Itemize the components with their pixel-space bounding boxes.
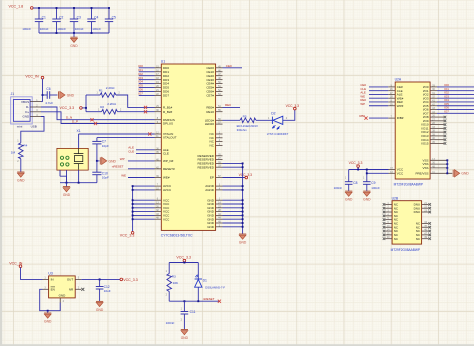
resistor R5 330ohm xyxy=(240,118,256,123)
junction xyxy=(446,163,448,165)
svg-text:GND: GND xyxy=(239,241,247,245)
svg-text:C6: C6 xyxy=(46,87,50,91)
junction xyxy=(99,278,101,280)
pin NC left row 5 of U2B xyxy=(385,219,392,221)
svg-text:C11: C11 xyxy=(190,310,196,314)
svg-text:C9: C9 xyxy=(371,181,375,185)
svg-text:GND: GND xyxy=(345,198,353,202)
pin I/O3 with net label IO3 xyxy=(430,97,437,99)
wire R1 to U1 R_B1# xyxy=(116,95,155,107)
pin NC right row 9 of U2B xyxy=(422,234,429,236)
pin CLE with net label CLE xyxy=(155,153,162,155)
pin RE0# with net label RE0 xyxy=(216,106,223,108)
wire VSS bus right of U2A xyxy=(446,160,448,173)
wire VCC rail left of U2A xyxy=(349,169,389,171)
svg-text:100nF: 100nF xyxy=(22,27,31,31)
capacitor C12 10uF xyxy=(99,279,101,286)
svg-text:C1: C1 xyxy=(42,16,46,20)
svg-text:RESERVED: RESERVED xyxy=(197,165,214,169)
pin NC right row 7 of U2B xyxy=(422,226,429,228)
pin DD5 with net label IO5 xyxy=(155,87,162,89)
ground GND below U3 xyxy=(47,311,49,313)
junction xyxy=(446,167,448,169)
pin DMINUS xyxy=(155,119,162,121)
svg-text:X1: X1 xyxy=(77,129,81,133)
svg-text:2.2KΩ: 2.2KΩ xyxy=(106,86,115,90)
svg-text:100nF: 100nF xyxy=(166,321,175,325)
pin NC left row 2 of U2B xyxy=(385,207,392,209)
svg-text:WE: WE xyxy=(121,173,126,177)
no-ERC marker on D_N xyxy=(90,118,93,121)
svg-text:100nF: 100nF xyxy=(334,186,343,190)
svg-text:GND: GND xyxy=(363,198,371,202)
junction xyxy=(183,262,185,264)
svg-text:LED2#: LED2# xyxy=(205,122,215,126)
junction xyxy=(132,218,134,220)
svg-text:D+: D+ xyxy=(25,110,29,114)
diode D1 xyxy=(195,263,226,302)
svg-text:VCC_3.3: VCC_3.3 xyxy=(123,278,138,282)
svg-text:100nF: 100nF xyxy=(371,186,380,190)
pin NC right row 6 of U2B xyxy=(422,222,429,224)
pin DNU right row 1 of U2B xyxy=(422,203,429,205)
svg-text:10uF: 10uF xyxy=(104,289,111,293)
pin NC left row 4 of U2B xyxy=(385,215,392,217)
junction xyxy=(446,159,448,161)
pin I/O12 xyxy=(430,131,444,133)
junction xyxy=(132,211,134,213)
wire crystal ground pins xyxy=(59,170,61,176)
pin DD1 with net label IO1 xyxy=(155,71,162,73)
svg-text:C4: C4 xyxy=(94,16,98,20)
pin DPLUS xyxy=(155,123,162,125)
pins VCC x6 xyxy=(155,199,162,201)
svg-text:AGND: AGND xyxy=(205,188,215,192)
no-ERC marker at nRESET wire end xyxy=(218,300,221,303)
pin DD2 with net label IO2 xyxy=(155,75,162,77)
svg-text:R4: R4 xyxy=(23,143,27,147)
junction xyxy=(132,199,134,201)
junction xyxy=(357,169,359,171)
pin I/O4 with net label IO4 xyxy=(430,101,437,103)
svg-text:R3: R3 xyxy=(172,275,176,279)
svg-text:330ohm: 330ohm xyxy=(237,128,248,132)
svg-text:VCC_3.3: VCC_3.3 xyxy=(176,255,191,259)
junction xyxy=(132,203,134,205)
svg-text:D1: D1 xyxy=(203,278,207,282)
ground GND below crystal xyxy=(66,183,68,187)
svg-text:C2: C2 xyxy=(59,16,63,20)
svg-text:WP_D#: WP_D# xyxy=(163,159,174,163)
ground GND below R4 xyxy=(17,171,24,173)
svg-text:U2B: U2B xyxy=(392,196,399,200)
pin XTALOUT xyxy=(155,137,162,139)
wire CE0 with net label CE0 xyxy=(223,67,243,69)
svg-text:100nF: 100nF xyxy=(75,27,84,31)
svg-text:R1: R1 xyxy=(99,89,103,93)
pin LED1# xyxy=(216,119,223,121)
junction xyxy=(366,169,368,171)
pin I/O14 xyxy=(430,139,444,141)
svg-text:WP#: WP# xyxy=(397,104,404,108)
junction xyxy=(242,189,244,191)
junction xyxy=(108,7,110,9)
pin RESET# with net label nRESET xyxy=(155,168,162,170)
svg-text:RB0: RB0 xyxy=(359,114,365,118)
pin XTALIN xyxy=(155,133,162,135)
svg-text:1M: 1M xyxy=(11,151,16,155)
wire U3 EN to GND xyxy=(40,289,61,310)
junction xyxy=(197,300,199,302)
svg-text:nRESET: nRESET xyxy=(112,165,124,169)
capacitor C10 10pF xyxy=(96,161,98,172)
wire VCC_IN to U3 IN xyxy=(21,268,43,280)
svg-text:GND: GND xyxy=(109,159,117,163)
svg-text:VCC_1.8: VCC_1.8 xyxy=(9,5,24,9)
wire J1 GND to R4 xyxy=(21,117,44,143)
svg-text:CLE: CLE xyxy=(163,152,169,156)
pin CE3# xyxy=(216,79,223,81)
svg-text:CY7C68013-56LTXC: CY7C68013-56LTXC xyxy=(161,234,193,238)
svg-text:XTALOUT: XTALOUT xyxy=(163,136,177,140)
junction xyxy=(56,7,58,9)
wire D_N from J1 D- to U1 DMINUS xyxy=(41,107,155,120)
pin CE2# xyxy=(216,75,223,77)
wire R2 to U1 R_B2# xyxy=(118,111,155,113)
junction xyxy=(42,94,44,96)
svg-text:DPLUS: DPLUS xyxy=(163,122,173,126)
capacitor C9 100nF xyxy=(363,181,371,183)
svg-text:CE0: CE0 xyxy=(226,64,232,68)
svg-text:U2A: U2A xyxy=(395,78,402,82)
pin R_B2# xyxy=(155,111,162,113)
svg-text:WP: WP xyxy=(360,102,365,106)
no-ERC marker on R_B1 wire xyxy=(144,106,147,109)
svg-text:I/O15: I/O15 xyxy=(421,142,429,146)
capacitor C5 100nF xyxy=(108,8,110,19)
resistor R1 2.2K xyxy=(86,94,100,96)
junction xyxy=(132,185,134,187)
svg-text:100nF: 100nF xyxy=(92,27,101,31)
svg-text:100nF: 100nF xyxy=(57,27,66,31)
junction xyxy=(446,172,448,174)
pin CE4# xyxy=(216,83,223,85)
pin CE# with net label CE0 xyxy=(388,86,395,88)
svg-text:VCC: VCC xyxy=(163,217,170,221)
ground GND below U1 xyxy=(239,233,246,235)
pin WE# with net label WE xyxy=(155,177,162,179)
wire U3 OUT to VCC_3.3 xyxy=(81,278,120,280)
svg-text:100nF: 100nF xyxy=(40,27,49,31)
svg-text:VCC_IN: VCC_IN xyxy=(25,74,39,78)
junction xyxy=(91,7,93,9)
pin DD0 with net label IO0 xyxy=(155,67,162,69)
pin CE0# xyxy=(216,67,223,69)
pin RE# with net label RE0 xyxy=(388,101,395,103)
pin NC left row 7 of U2B xyxy=(385,226,392,228)
svg-text:VCC_3.3: VCC_3.3 xyxy=(239,173,253,177)
svg-text:C8: C8 xyxy=(353,181,357,185)
no-ERC marker on RB0 wire xyxy=(364,117,367,120)
svg-text:GND: GND xyxy=(461,172,469,176)
junction xyxy=(91,32,93,34)
wire D_P from J1 D+ to U1 DPLUS xyxy=(41,112,155,124)
pin I/O15 xyxy=(430,142,444,144)
no-ERC marker on D_P xyxy=(94,122,97,125)
power port VCC_3.3 above LED xyxy=(294,107,297,110)
svg-text:MT29F2G08AABWP: MT29F2G08AABWP xyxy=(394,182,423,186)
pin I/O8 xyxy=(430,116,444,118)
svg-text:WP: WP xyxy=(120,157,125,161)
svg-text:J1: J1 xyxy=(11,92,15,96)
junction xyxy=(47,310,49,312)
svg-text:GND: GND xyxy=(70,44,78,48)
wire decoupling bottom rail xyxy=(39,32,109,34)
junction xyxy=(242,203,244,205)
svg-text:D-: D- xyxy=(26,105,29,109)
svg-text:4.7uF: 4.7uF xyxy=(45,101,53,105)
capacitor C8 100nF xyxy=(348,170,350,182)
voltage regulator U3 xyxy=(43,272,82,303)
svg-text:C5: C5 xyxy=(112,16,116,20)
crystal X1 xyxy=(57,129,88,170)
pin WP_D# with net label WP xyxy=(155,160,162,162)
svg-text:GND: GND xyxy=(44,320,52,324)
pin I/O2 with net label IO2 xyxy=(430,93,437,95)
pin ALE with net label ALE xyxy=(388,93,395,95)
svg-text:EN: EN xyxy=(51,288,55,292)
pin NC left row 10 of U2B xyxy=(385,238,392,240)
svg-text:10pF: 10pF xyxy=(102,176,109,180)
svg-text:WE#: WE# xyxy=(163,176,170,180)
ground GND below C8 xyxy=(345,190,352,192)
svg-text:R/B#: R/B# xyxy=(397,116,404,120)
svg-text:nRESET: nRESET xyxy=(203,297,215,301)
svg-text:U3: U3 xyxy=(48,272,52,276)
pin I/O0 with net label IO0 xyxy=(430,86,437,88)
wire R5 to LED D2 xyxy=(256,119,272,121)
pin I/O7 with net label IO7 xyxy=(430,112,437,114)
svg-text:VCC_3.3: VCC_3.3 xyxy=(60,106,75,110)
pin I/O11 xyxy=(430,127,444,129)
pin CE5# xyxy=(216,87,223,89)
svg-text:USB: USB xyxy=(31,125,37,129)
svg-text:VCC: VCC xyxy=(397,171,404,175)
svg-text:D2: D2 xyxy=(271,111,275,115)
pin CE6# xyxy=(216,91,223,93)
pin I/O10 xyxy=(430,124,444,126)
junction xyxy=(132,189,134,191)
wire crystal ground rail xyxy=(60,182,97,184)
svg-text:GND: GND xyxy=(207,225,215,229)
resistor R3 10K xyxy=(168,263,170,274)
no-connect mark on NR pin xyxy=(81,288,84,291)
svg-text:D_P: D_P xyxy=(72,119,78,123)
junction xyxy=(96,160,98,162)
pin NC left row 3 of U2B xyxy=(385,211,392,213)
ground GND right of C6 xyxy=(58,91,60,98)
wire XTALIN xyxy=(79,133,155,135)
pin WE# with net label WE xyxy=(388,97,395,99)
junction xyxy=(242,214,244,216)
pin I/O6 with net label IO6 xyxy=(430,109,437,111)
svg-text:GND: GND xyxy=(23,115,31,119)
ground GND of decoupling bank xyxy=(73,33,75,37)
svg-text:VCC_3.3: VCC_3.3 xyxy=(120,234,135,238)
junction xyxy=(78,182,80,184)
svg-text:RESET#: RESET# xyxy=(163,167,175,171)
junction xyxy=(73,7,75,9)
svg-text:AVCC: AVCC xyxy=(163,188,172,192)
wire LED1# to R5 xyxy=(223,119,241,121)
wire VCC_IN to VBUS xyxy=(42,79,44,102)
junction xyxy=(132,207,134,209)
pins VCC x2 of U2A xyxy=(389,169,396,171)
junction xyxy=(66,182,68,184)
svg-text:RE0: RE0 xyxy=(225,103,231,107)
capacitor C1 100nF xyxy=(38,8,40,19)
svg-text:DNU: DNU xyxy=(414,210,421,214)
junction xyxy=(73,32,75,34)
pin NC left row 1 of U2B xyxy=(385,203,392,205)
svg-text:DS0LAMN5-7-F: DS0LAMN5-7-F xyxy=(205,286,225,290)
junction xyxy=(242,207,244,209)
svg-text:GND: GND xyxy=(96,308,104,312)
svg-text:MT29F2G08AABWP: MT29F2G08AABWP xyxy=(391,248,420,252)
pin LED2# xyxy=(216,123,223,125)
pins VSS x3 xyxy=(430,159,447,161)
svg-text:OUT: OUT xyxy=(67,278,74,282)
junction xyxy=(242,166,244,168)
capacitor C3 100nF xyxy=(73,8,75,19)
junction xyxy=(183,300,185,302)
svg-text:C3: C3 xyxy=(77,16,81,20)
no-ERC marker on R_B2 wire xyxy=(144,110,147,113)
svg-text:GND: GND xyxy=(67,93,75,97)
pin NC left row 9 of U2B xyxy=(385,234,392,236)
pin ALE with net label ALE xyxy=(155,149,162,151)
pin I/O1 with net label IO1 xyxy=(430,90,437,92)
pins AGND x2 xyxy=(216,185,223,187)
junction xyxy=(242,218,244,220)
svg-text:GND: GND xyxy=(181,336,189,340)
pin AVCC x2 xyxy=(155,185,162,187)
junction xyxy=(366,172,368,174)
pin NC left row 6 of U2B xyxy=(385,222,392,224)
svg-text:VSS: VSS xyxy=(422,166,428,170)
svg-text:IN: IN xyxy=(51,278,54,282)
junction xyxy=(242,185,244,187)
wire XTALOUT xyxy=(97,137,155,139)
power port VCC_3.3 at U3 output xyxy=(120,278,123,281)
pin DD4 with net label IO4 xyxy=(155,83,162,85)
svg-text:VCC_3.3: VCC_3.3 xyxy=(349,161,363,165)
svg-text:DD7: DD7 xyxy=(163,94,169,98)
pin DD3 with net label IO3 xyxy=(155,79,162,81)
svg-text:LTST-C190KRKT: LTST-C190KRKT xyxy=(267,132,289,136)
pin PRE/VSS with ground xyxy=(430,172,452,174)
pins GND x8 xyxy=(216,199,223,201)
pin DD6 with net label IO6 xyxy=(155,91,162,93)
svg-text:GND: GND xyxy=(17,179,25,183)
svg-text:GND: GND xyxy=(59,294,67,298)
connector J1 mini-USB xyxy=(11,92,41,128)
wire VCC_3.3 to R1 R2 xyxy=(82,107,86,109)
pins NC x4 xyxy=(216,133,223,135)
ground GND below C9 xyxy=(363,190,370,192)
capacitor C2 100nF xyxy=(56,8,58,19)
ground GND below C12 xyxy=(96,300,103,302)
svg-text:CE7#: CE7# xyxy=(206,94,214,98)
capacitor C7 10pF xyxy=(92,140,101,142)
svg-text:10K: 10K xyxy=(173,281,179,285)
wire R4 to ground xyxy=(20,159,22,172)
svg-text:10pF: 10pF xyxy=(102,144,109,148)
pins RESERVED x4 xyxy=(216,155,223,157)
pin CE1# xyxy=(216,71,223,73)
power port VCC_3.3 below U1 VCC bus xyxy=(131,232,134,235)
svg-text:VCC_3.3: VCC_3.3 xyxy=(286,104,300,108)
resistor R4 1M xyxy=(19,143,24,159)
svg-text:mini: mini xyxy=(17,125,23,129)
pin R/B# with net label RB0 xyxy=(388,117,395,119)
pin I/O9 xyxy=(430,120,444,122)
svg-text:RE1#: RE1# xyxy=(206,110,214,114)
resistor R2 2.2K xyxy=(86,111,102,113)
svg-text:EP: EP xyxy=(210,176,214,180)
svg-text:R2: R2 xyxy=(100,105,104,109)
svg-text:VBUS: VBUS xyxy=(21,100,29,104)
junction xyxy=(242,199,244,201)
junction xyxy=(38,7,40,9)
pin DNU right row 3 of U2B xyxy=(422,211,429,213)
pin NC left row 8 of U2B xyxy=(385,230,392,232)
svg-text:PRE/VSS: PRE/VSS xyxy=(415,171,428,175)
svg-text:IO7: IO7 xyxy=(138,92,143,96)
pin CLE with net label CLE xyxy=(388,90,395,92)
junction xyxy=(242,211,244,213)
pin RE1# xyxy=(216,111,223,113)
pin WP# with net label WP xyxy=(388,105,395,107)
junction xyxy=(85,107,87,109)
pin DNU right row 2 of U2B xyxy=(422,207,429,209)
pin I/O5 with net label IO5 xyxy=(430,105,437,107)
pin NC right row 10 of U2B xyxy=(422,238,429,240)
junction xyxy=(132,214,134,216)
junction xyxy=(242,162,244,164)
svg-text:R5: R5 xyxy=(243,114,247,118)
pin R_B1# xyxy=(155,106,162,108)
pin NC right row 8 of U2B xyxy=(422,230,429,232)
ground GND right of U2A xyxy=(452,170,454,177)
pin CE7# xyxy=(216,94,223,96)
capacitor C6 4.7uF xyxy=(43,94,48,96)
pin DD7 with net label IO7 xyxy=(155,94,162,96)
svg-text:R_B2#: R_B2# xyxy=(163,110,173,114)
wire reset top rail xyxy=(183,261,185,264)
pin I/O13 xyxy=(430,135,444,137)
svg-text:U1: U1 xyxy=(161,60,165,64)
wire reset bottom rail with net label nRESET xyxy=(169,300,219,302)
wire GND bus right of U1 xyxy=(242,163,244,234)
wire VCC_1.8 top rail xyxy=(33,7,109,9)
junction xyxy=(242,222,244,224)
LED D2 LTST-C190KRKT xyxy=(267,111,289,136)
junction xyxy=(242,226,244,228)
ground GND below C11 xyxy=(181,329,188,331)
capacitor C11 100nF xyxy=(183,301,185,311)
svg-text:IO7: IO7 xyxy=(444,109,449,113)
